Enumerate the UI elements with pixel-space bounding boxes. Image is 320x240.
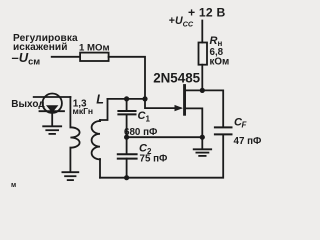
svg-text:2N5485: 2N5485 — [153, 71, 200, 86]
svg-text:F: F — [242, 121, 248, 130]
svg-text:R: R — [210, 35, 218, 47]
svg-text:м: м — [11, 182, 16, 189]
ground connector — [43, 126, 61, 134]
node top rail / gate — [142, 96, 147, 101]
label 2N5485 — [153, 71, 200, 86]
wire bottom rail — [100, 136, 223, 178]
svg-text:1: 1 — [146, 115, 151, 124]
wire middle rail — [127, 136, 203, 138]
capacitor C1 680 пФ — [118, 111, 135, 114]
wire source ground stub — [201, 137, 203, 148]
svg-text:мкГн: мкГн — [73, 106, 94, 116]
svg-text:кОм: кОм — [210, 57, 230, 68]
wire C1 top lead — [126, 99, 128, 111]
svg-text:+ 12 В: + 12 В — [188, 5, 225, 19]
capacitor C2 75 пФ — [118, 154, 137, 158]
svg-text:75 пФ: 75 пФ — [140, 154, 169, 165]
wire drain lead — [186, 89, 202, 91]
wire tank top-left corner — [100, 99, 108, 120]
svg-text:L: L — [96, 93, 104, 107]
inductor L — [92, 121, 100, 159]
capacitor CF 47 пФ — [215, 127, 232, 134]
wire supply — [201, 21, 203, 43]
wire bias left — [52, 56, 80, 58]
label -Uсм — [12, 50, 41, 67]
node bottom rail — [124, 175, 129, 180]
wire connector shield stub — [51, 111, 53, 126]
wire L bottom — [99, 159, 101, 178]
wire top rail — [108, 98, 146, 100]
label +Ucc — [169, 15, 194, 28]
node drain — [200, 88, 205, 93]
node mid rail / source — [200, 135, 205, 140]
wire source lead — [186, 108, 202, 137]
wire gate lead — [145, 99, 181, 108]
gate arrow — [175, 105, 184, 111]
wire C2 bottom lead — [126, 159, 128, 178]
wire C2 top lead — [126, 137, 128, 154]
wire C1 bottom lead — [126, 114, 128, 137]
wire output down — [69, 97, 71, 127]
label Регулировка искажений — [13, 33, 78, 53]
transistor Q1 2N5485 channel bar — [183, 84, 186, 116]
wire bias right to gate node — [109, 57, 145, 99]
connector output jack — [43, 94, 62, 113]
resistor R bias 1 МОм — [80, 53, 109, 61]
label +12 В — [188, 5, 225, 19]
label Выход — [11, 99, 45, 110]
svg-text:Выход: Выход — [11, 99, 45, 110]
label L — [96, 93, 104, 107]
inductor 1,3 мкГн — [70, 127, 79, 147]
wire output — [34, 96, 71, 98]
wire CF top lead to drain node — [202, 90, 223, 127]
svg-text:1 МОм: 1 МОм — [79, 43, 110, 54]
node mid rail / C2 — [124, 135, 129, 140]
node top rail / C1 — [124, 96, 129, 101]
resistor RH 6,8 кОм — [199, 43, 208, 65]
ground source — [194, 149, 212, 156]
svg-text:47 пФ: 47 пФ — [234, 136, 263, 147]
ground choke — [62, 172, 78, 180]
wire resistor to drain node — [201, 65, 203, 91]
wire choke to ground — [69, 148, 71, 172]
